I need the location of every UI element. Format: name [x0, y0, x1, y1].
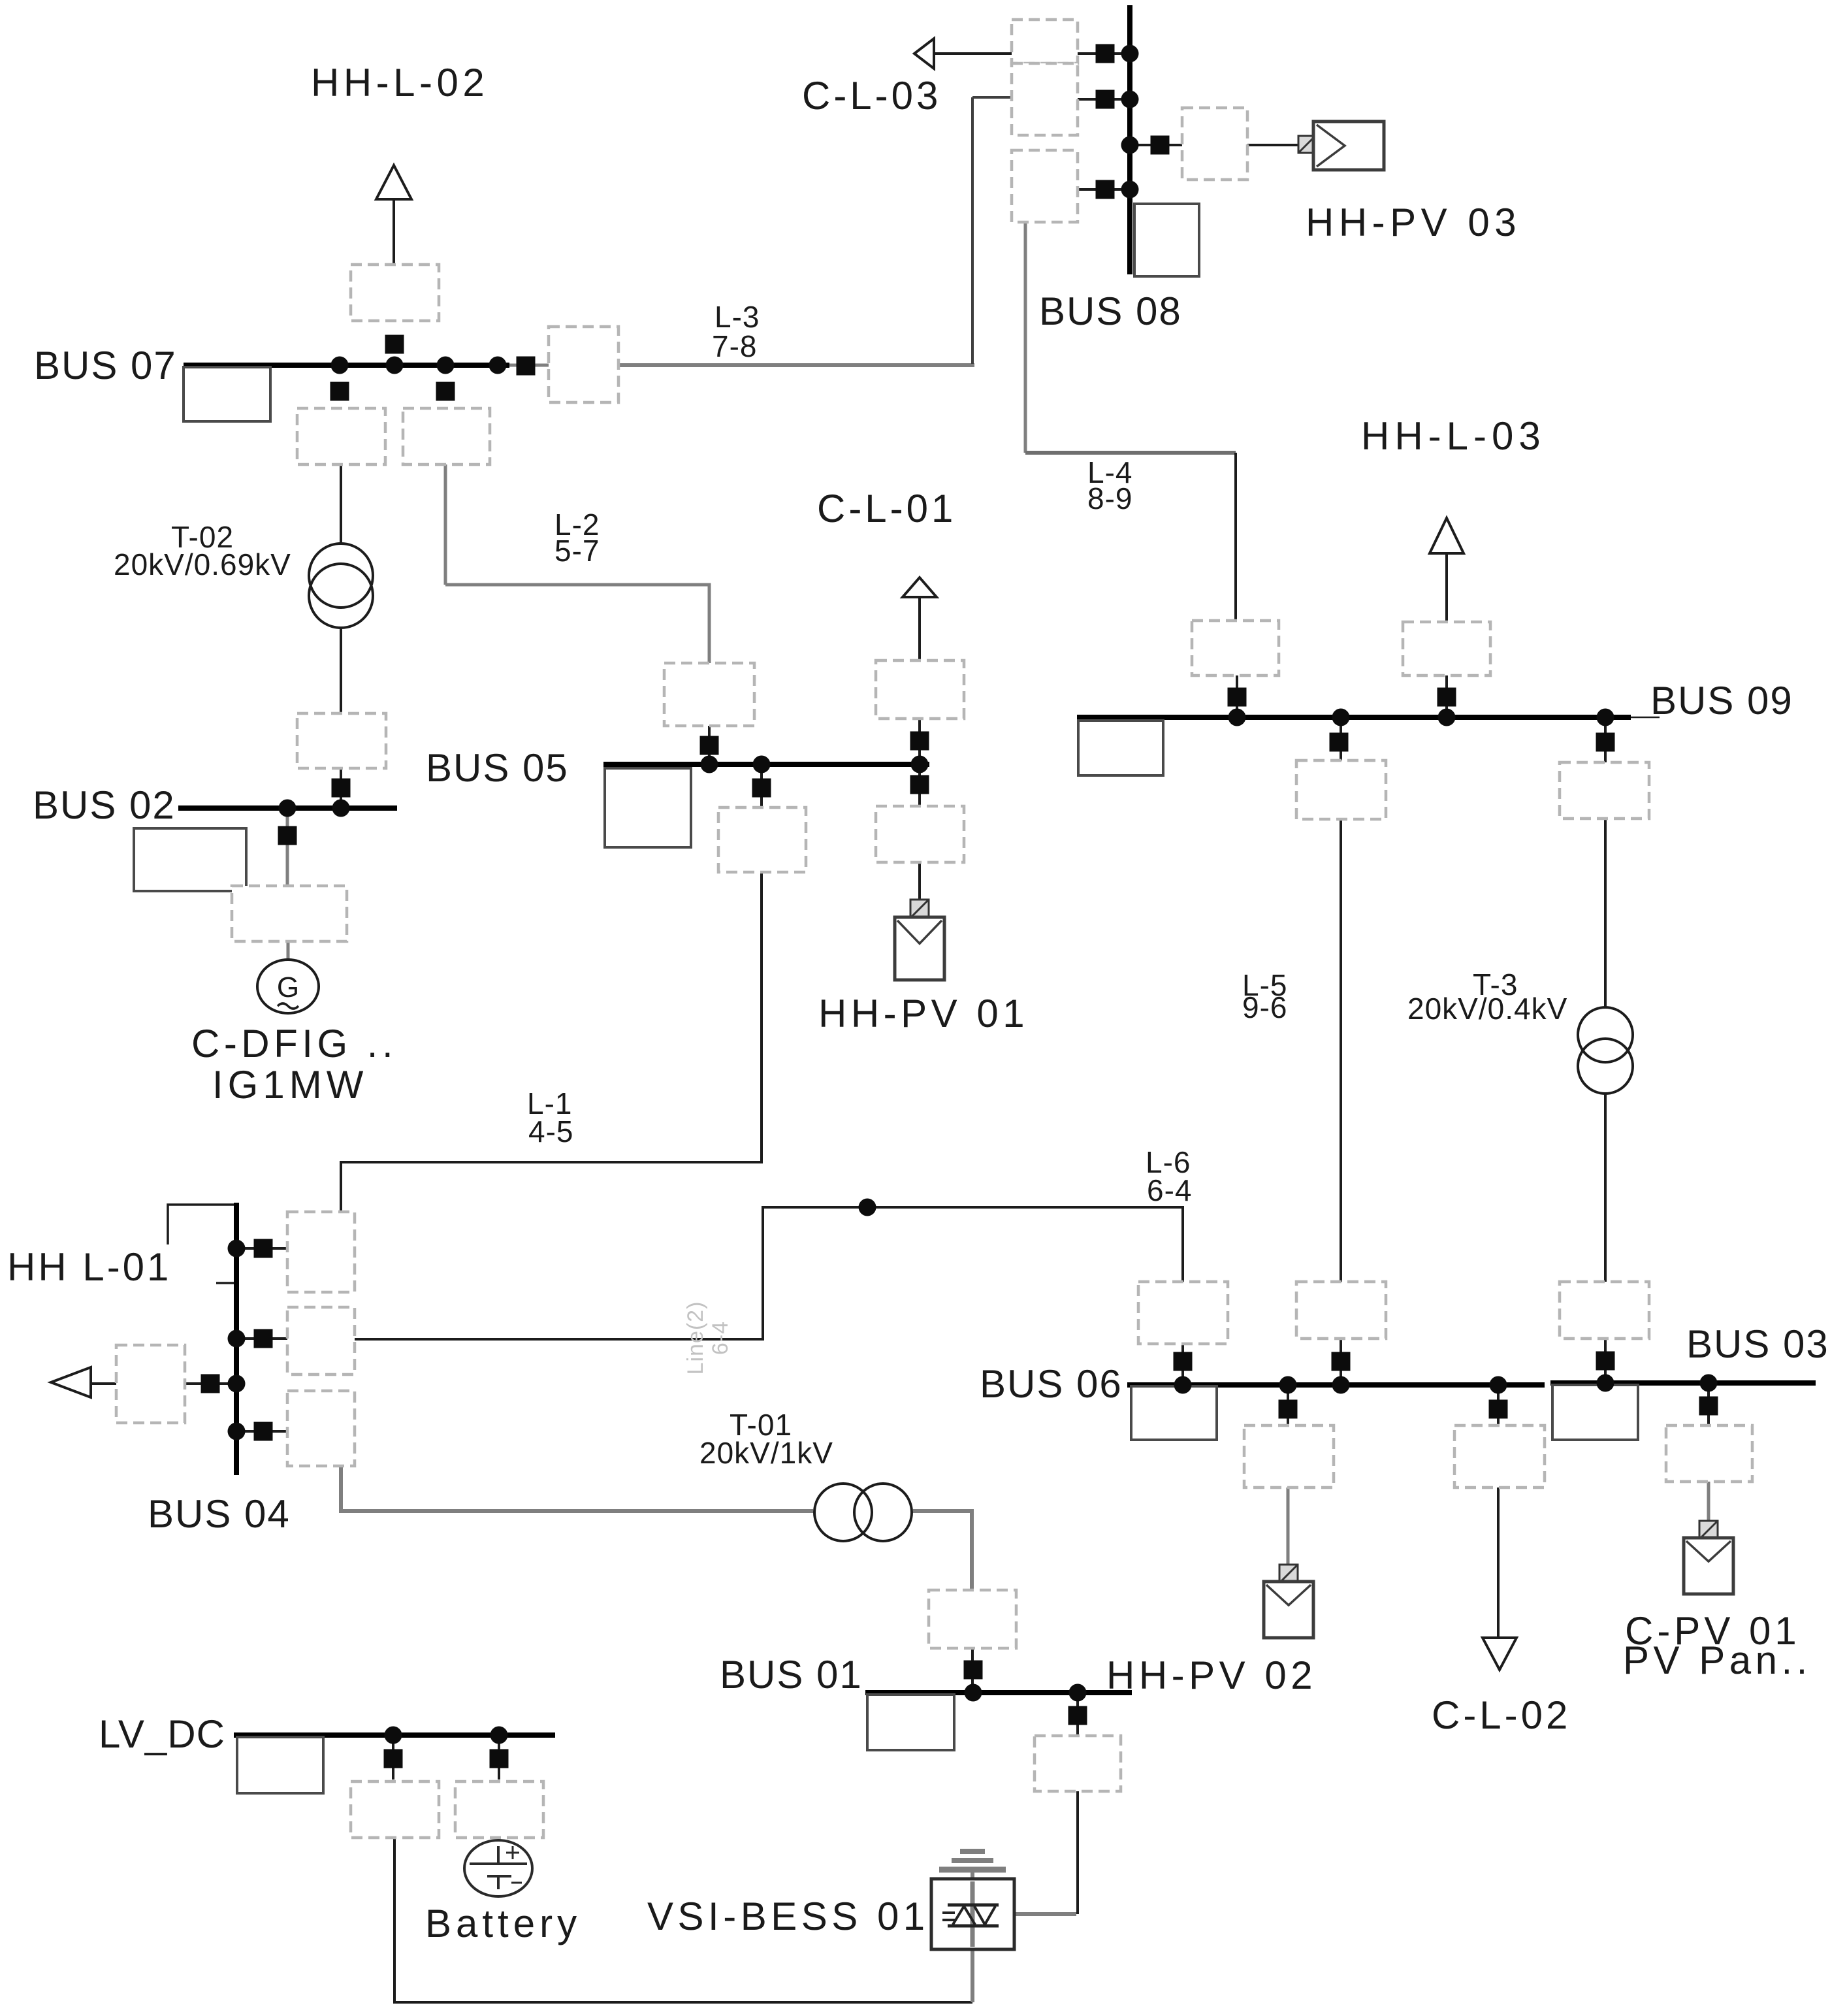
svg-text:6-4: 6-4 [708, 1321, 733, 1355]
svg-text:6-4: 6-4 [1147, 1173, 1192, 1207]
svg-text:20kV/0.69kV: 20kV/0.69kV [114, 547, 291, 581]
svg-text:C-DFIG ..: C-DFIG .. [191, 1022, 397, 1065]
svg-text:C-L-01: C-L-01 [817, 487, 956, 530]
svg-text:BUS 05: BUS 05 [426, 746, 569, 790]
svg-text:PV Pan..: PV Pan.. [1623, 1638, 1812, 1682]
svg-text:BUS 01: BUS 01 [720, 1653, 863, 1697]
svg-text:BUS 03: BUS 03 [1686, 1322, 1829, 1366]
svg-text:Battery: Battery [425, 1902, 581, 1945]
svg-text:C-L-03: C-L-03 [802, 74, 941, 118]
svg-text:HH-L-02: HH-L-02 [311, 61, 489, 105]
svg-text:LV_DC: LV_DC [99, 1712, 225, 1756]
svg-text:BUS 04: BUS 04 [148, 1492, 291, 1536]
svg-text:7-8: 7-8 [712, 329, 757, 363]
svg-text:HH-L-03: HH-L-03 [1361, 414, 1546, 458]
svg-text:IG1MW: IG1MW [212, 1063, 368, 1107]
svg-text:VSI-BESS 01: VSI-BESS 01 [647, 1894, 929, 1938]
svg-text:BUS 07: BUS 07 [34, 344, 177, 387]
svg-text:4-5: 4-5 [528, 1114, 573, 1148]
svg-text:HH L-01: HH L-01 [7, 1245, 171, 1289]
svg-text:HH-PV 01: HH-PV 01 [818, 992, 1029, 1035]
svg-text:9-6: 9-6 [1242, 990, 1287, 1024]
svg-text:BUS 02: BUS 02 [33, 783, 176, 827]
svg-text:HH-PV 03: HH-PV 03 [1306, 201, 1521, 244]
svg-text:8-9: 8-9 [1087, 481, 1132, 515]
svg-text:BUS 06: BUS 06 [980, 1362, 1123, 1406]
svg-text:HH-PV 02: HH-PV 02 [1106, 1653, 1317, 1697]
svg-text:5-7: 5-7 [554, 534, 600, 568]
svg-text:C-L-02: C-L-02 [1432, 1693, 1571, 1737]
svg-text:BUS 08: BUS 08 [1039, 289, 1182, 333]
svg-text:20kV/1kV: 20kV/1kV [699, 1436, 833, 1470]
svg-text:20kV/0.4kV: 20kV/0.4kV [1407, 992, 1567, 1026]
svg-text:G: G [277, 971, 299, 1003]
svg-text:BUS 09: BUS 09 [1650, 679, 1793, 723]
svg-text:Line(2): Line(2) [683, 1301, 708, 1375]
